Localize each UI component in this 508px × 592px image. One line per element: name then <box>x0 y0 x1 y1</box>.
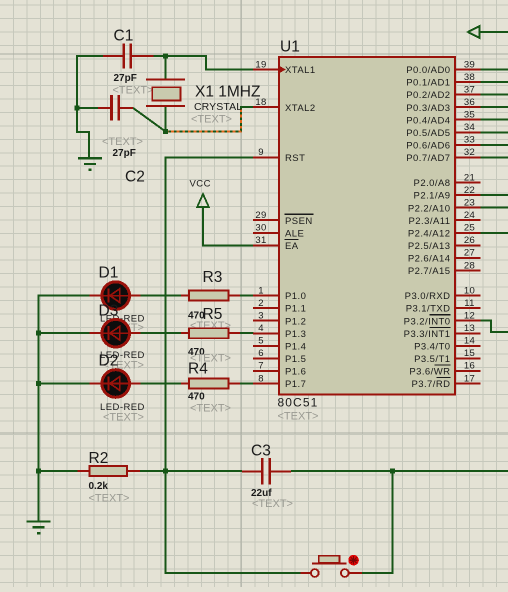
pin 11 P3.1/TXD (right) <box>406 298 481 315</box>
pin 22 P2.1/A9 (right) <box>414 185 481 202</box>
svg-text:P0.3/AD3: P0.3/AD3 <box>406 103 450 114</box>
pin 25 P2.4/A12 (right) <box>408 223 481 240</box>
crystal X1 1MHZ <box>146 80 185 107</box>
LED D3 <box>89 319 140 347</box>
wire P0.0 bus <box>481 69 508 71</box>
svg-text:P2.2/A10: P2.2/A10 <box>408 203 451 214</box>
svg-text:P0.4/AD4: P0.4/AD4 <box>406 115 450 126</box>
node junction XTAL2/C2 <box>163 129 168 134</box>
wire D2 to R4 <box>140 383 181 385</box>
pin 38 P0.1/AD1 (right) <box>406 72 480 89</box>
wire C2 left to ground bus <box>77 107 98 109</box>
svg-text:7: 7 <box>258 361 264 372</box>
svg-text:13: 13 <box>464 323 475 334</box>
svg-text:P2.3/A11: P2.3/A11 <box>409 216 451 227</box>
svg-text:32: 32 <box>464 147 475 158</box>
pin 1 P1.0 (left) <box>253 285 306 302</box>
node junction C1/crystal <box>163 54 168 59</box>
terminal arrow (top right) <box>468 26 508 38</box>
svg-text:<TEXT>: <TEXT> <box>102 136 143 148</box>
svg-text:36: 36 <box>464 97 475 108</box>
svg-text:P2.4/A12: P2.4/A12 <box>408 228 451 239</box>
pin 27 P2.6/A14 (right) <box>408 248 481 265</box>
pin 24 P2.3/A11 (right) <box>409 210 481 227</box>
svg-text:R2: R2 <box>89 450 109 467</box>
svg-text:33: 33 <box>464 135 475 146</box>
svg-text:15: 15 <box>464 348 475 359</box>
svg-text:5: 5 <box>258 336 264 347</box>
svg-text:<TEXT>: <TEXT> <box>89 493 130 505</box>
svg-text:P0.0/AD0: P0.0/AD0 <box>406 65 450 76</box>
svg-text:0.2k: 0.2k <box>89 481 109 492</box>
resistor R4 470 <box>181 379 240 389</box>
svg-text:R4: R4 <box>188 361 208 378</box>
svg-text:P0.2/AD2: P0.2/AD2 <box>406 90 450 101</box>
svg-text:D3: D3 <box>99 303 119 320</box>
svg-text:14: 14 <box>464 336 475 347</box>
svg-text:<TEXT>: <TEXT> <box>278 411 319 423</box>
pin 7 P1.6 (left) <box>253 361 306 378</box>
svg-text:P2.5/A13: P2.5/A13 <box>408 241 451 252</box>
svg-text:P1.4: P1.4 <box>285 341 306 352</box>
node junction bus/R2 <box>36 469 41 474</box>
svg-text:R5: R5 <box>203 306 223 323</box>
wire D1 to R3 <box>140 295 181 297</box>
pin 6 P1.5 (left) <box>253 348 306 365</box>
capacitor C3 <box>242 458 291 485</box>
pin 37 P0.2/AD2 (right) <box>406 84 480 101</box>
wire XTAL2 net (selected, dashed highlight) <box>166 107 254 131</box>
push button (reset) <box>300 555 362 577</box>
pin 8 P1.7 (left) <box>253 373 306 390</box>
svg-text:27pF: 27pF <box>113 148 136 159</box>
wire P2.4 <box>481 232 508 234</box>
wire D3 to R5 <box>140 332 181 334</box>
wire crystal bottom to node <box>165 106 167 132</box>
wire LED cathode bus to ground <box>39 296 90 521</box>
wire P0.5 bus <box>481 131 508 133</box>
wire bus to D3 <box>39 332 90 334</box>
pin 14 P3.4/T0 (right) <box>414 336 481 353</box>
wire P3.2 jog <box>481 321 508 332</box>
svg-text:P1.3: P1.3 <box>285 329 306 340</box>
LED D2 <box>89 370 140 398</box>
IC U1 80C51 <box>278 39 456 423</box>
wire P0.3 bus <box>481 106 508 108</box>
pin 26 P2.5/A13 (right) <box>408 235 481 252</box>
svg-text:EA: EA <box>285 241 299 252</box>
svg-text:29: 29 <box>255 210 266 221</box>
pin 29 PSEN (left) <box>253 210 314 227</box>
wire reset button loop left <box>166 471 301 573</box>
svg-text:18: 18 <box>255 97 266 108</box>
svg-text:P1.6: P1.6 <box>285 367 306 378</box>
pin 36 P0.3/AD3 (right) <box>406 97 480 114</box>
capacitor C2 <box>98 95 133 121</box>
svg-text:8: 8 <box>258 373 264 384</box>
pin 4 P1.3 (left) <box>253 323 306 340</box>
svg-text:6: 6 <box>258 348 264 359</box>
pin 28 P2.7/A15 (right) <box>408 260 481 277</box>
pin 9 RST (left) <box>253 147 305 164</box>
pin 3 P1.2 (left) <box>253 311 306 328</box>
svg-text:P1.2: P1.2 <box>285 316 306 327</box>
resistor R5 470 <box>181 328 240 338</box>
ground (bottom left) <box>27 522 51 534</box>
pin 35 P0.4/AD4 (right) <box>406 110 480 127</box>
svg-text:P1.7: P1.7 <box>285 379 306 390</box>
svg-text:U1: U1 <box>280 39 300 56</box>
svg-text:25: 25 <box>464 223 475 234</box>
svg-text:D2: D2 <box>99 353 119 370</box>
svg-text:XTAL1: XTAL1 <box>285 65 316 76</box>
node junction C2/GND <box>75 105 80 110</box>
svg-text:D1: D1 <box>99 265 119 282</box>
svg-text:XTAL2: XTAL2 <box>285 103 316 114</box>
svg-text:3: 3 <box>258 311 264 322</box>
resistor R3 470 <box>181 291 240 301</box>
svg-text:27pF: 27pF <box>114 73 137 84</box>
svg-text:R3: R3 <box>203 269 223 286</box>
pin 2 P1.1 (left) <box>253 298 306 315</box>
svg-text:28: 28 <box>464 260 475 271</box>
svg-text:31: 31 <box>255 235 266 246</box>
svg-text:P3.6/WR: P3.6/WR <box>409 367 450 378</box>
svg-text:C1: C1 <box>114 28 134 45</box>
svg-text:P3.0/RXD: P3.0/RXD <box>405 291 451 302</box>
pin 34 P0.5/AD5 (right) <box>406 122 480 139</box>
svg-text:34: 34 <box>464 122 475 133</box>
wire ground bus to R2 <box>39 470 78 472</box>
svg-text:VCC: VCC <box>190 179 211 190</box>
svg-text:<TEXT>: <TEXT> <box>103 412 144 424</box>
svg-text:23: 23 <box>464 198 475 209</box>
svg-text:9: 9 <box>258 147 264 158</box>
node junction bus/D3 <box>36 331 41 336</box>
wire P2.1 <box>481 194 508 196</box>
pin 23 P2.2/A10 (right) <box>408 198 481 215</box>
pin 16 P3.6/WR (right) <box>409 361 480 378</box>
wire reset button loop right <box>362 471 393 573</box>
wire P0.1 bus <box>481 81 508 83</box>
wire C1 left to ground (net GND) <box>77 56 103 159</box>
wire RST node to C3 <box>166 470 242 472</box>
pin 19 XTAL1 (left) <box>253 59 316 76</box>
pin 39 P0.0/AD0 (right) <box>406 59 480 76</box>
svg-text:4: 4 <box>258 323 264 334</box>
pin 13 P3.3/INT1 (right) <box>404 323 481 340</box>
svg-text:12: 12 <box>464 311 475 322</box>
svg-text:38: 38 <box>464 72 475 83</box>
svg-text:P3.5/T1: P3.5/T1 <box>414 354 450 365</box>
pin 30 ALE (left) <box>253 223 304 240</box>
svg-text:<TEXT>: <TEXT> <box>191 114 232 126</box>
svg-text:C3: C3 <box>251 443 271 460</box>
pin 15 P3.5/T1 (right) <box>414 348 481 365</box>
wire P0.7 bus <box>481 156 508 158</box>
ground (crystal circuit) <box>78 158 102 170</box>
svg-text:80C51: 80C51 <box>278 396 319 410</box>
svg-text:19: 19 <box>255 59 266 70</box>
wire C3 right to VCC rail <box>291 470 508 472</box>
node junction C3/button <box>390 469 395 474</box>
svg-text:P1.0: P1.0 <box>285 291 306 302</box>
svg-text:P3.4/T0: P3.4/T0 <box>414 341 450 352</box>
svg-text:X1 1MHZ: X1 1MHZ <box>195 84 260 101</box>
pin 32 P0.7/AD7 (right) <box>406 147 480 164</box>
svg-text:<TEXT>: <TEXT> <box>113 85 154 97</box>
pin 31 EA (left) <box>253 235 299 252</box>
pin 33 P0.6/AD6 (right) <box>406 135 480 152</box>
node junction bus/D2 <box>36 381 41 386</box>
svg-text:35: 35 <box>464 110 475 121</box>
svg-text:37: 37 <box>464 84 475 95</box>
pin 18 XTAL2 (left) <box>253 97 316 114</box>
svg-text:<TEXT>: <TEXT> <box>190 403 231 415</box>
svg-text:39: 39 <box>464 59 475 70</box>
wire P2.2 <box>481 207 508 209</box>
svg-text:26: 26 <box>464 235 475 246</box>
pin 12 P3.2/INT0 (right) <box>404 311 481 328</box>
pin 5 P1.4 (left) <box>253 336 306 353</box>
svg-text:P3.2/INT0: P3.2/INT0 <box>404 316 451 327</box>
pin 10 P3.0/RXD (right) <box>405 285 481 302</box>
wire RST net: pin 9 to reset circuit <box>166 157 254 471</box>
wire C1 right to XTAL1 pin (net XTAL1) <box>153 56 253 70</box>
svg-text:24: 24 <box>464 210 475 221</box>
svg-text:30: 30 <box>255 223 266 234</box>
svg-text:1: 1 <box>258 285 264 296</box>
wire VCC to EA pin 31 <box>203 208 253 246</box>
svg-text:ALE: ALE <box>285 228 304 239</box>
svg-text:P0.5/AD5: P0.5/AD5 <box>406 128 450 139</box>
svg-text:10: 10 <box>464 285 475 296</box>
wire R4 to pin P1.7 <box>240 383 254 385</box>
svg-text:16: 16 <box>464 361 475 372</box>
svg-text:PSEN: PSEN <box>285 216 313 227</box>
svg-text:P3.1/TXD: P3.1/TXD <box>406 304 451 315</box>
svg-text:27: 27 <box>464 248 475 259</box>
wire P0.4 bus <box>481 119 508 121</box>
svg-text:P2.1/A9: P2.1/A9 <box>414 191 451 202</box>
wire R3 to pin P1.0 <box>240 295 254 297</box>
svg-text:11: 11 <box>464 298 474 309</box>
wire P0.2 bus <box>481 94 508 96</box>
wire R2 to RST node <box>140 470 166 472</box>
svg-text:P2.7/A15: P2.7/A15 <box>408 266 451 277</box>
svg-text:17: 17 <box>464 373 475 384</box>
power symbol VCC <box>190 179 211 208</box>
svg-text:470: 470 <box>188 392 205 403</box>
svg-text:P1.5: P1.5 <box>285 354 306 365</box>
svg-text:<TEXT>: <TEXT> <box>252 498 293 510</box>
svg-text:2: 2 <box>258 298 264 309</box>
svg-text:P1.1: P1.1 <box>285 304 306 315</box>
wire R5 to pin P1.3 <box>240 332 254 334</box>
capacitor C1 <box>103 44 153 69</box>
svg-text:C2: C2 <box>125 169 145 186</box>
wire C2 right diagonal to XTAL2 node <box>133 108 166 132</box>
svg-text:21: 21 <box>464 172 475 183</box>
svg-text:P0.7/AD7: P0.7/AD7 <box>406 153 450 164</box>
svg-text:RST: RST <box>285 153 305 164</box>
svg-text:P3.3/INT1: P3.3/INT1 <box>404 329 451 340</box>
node junction RST/R2/C3 <box>163 469 168 474</box>
pin 17 P3.7/RD (right) <box>411 373 480 390</box>
wire crystal top to node <box>165 56 167 80</box>
LED D1 <box>89 282 140 310</box>
svg-text:P2.6/A14: P2.6/A14 <box>408 254 451 265</box>
svg-text:CRYSTAL: CRYSTAL <box>194 101 242 113</box>
svg-text:P2.0/A8: P2.0/A8 <box>414 178 451 189</box>
wire P0.6 bus <box>481 144 508 146</box>
svg-text:P3.7/RD: P3.7/RD <box>411 379 450 390</box>
svg-text:P0.6/AD6: P0.6/AD6 <box>406 141 450 152</box>
svg-text:P0.1/AD1: P0.1/AD1 <box>406 78 450 89</box>
resistor R2 0.2k <box>77 466 140 476</box>
svg-text:22: 22 <box>464 185 475 196</box>
pin 21 P2.0/A8 (right) <box>414 172 481 189</box>
wire bus to D2 <box>39 383 90 385</box>
